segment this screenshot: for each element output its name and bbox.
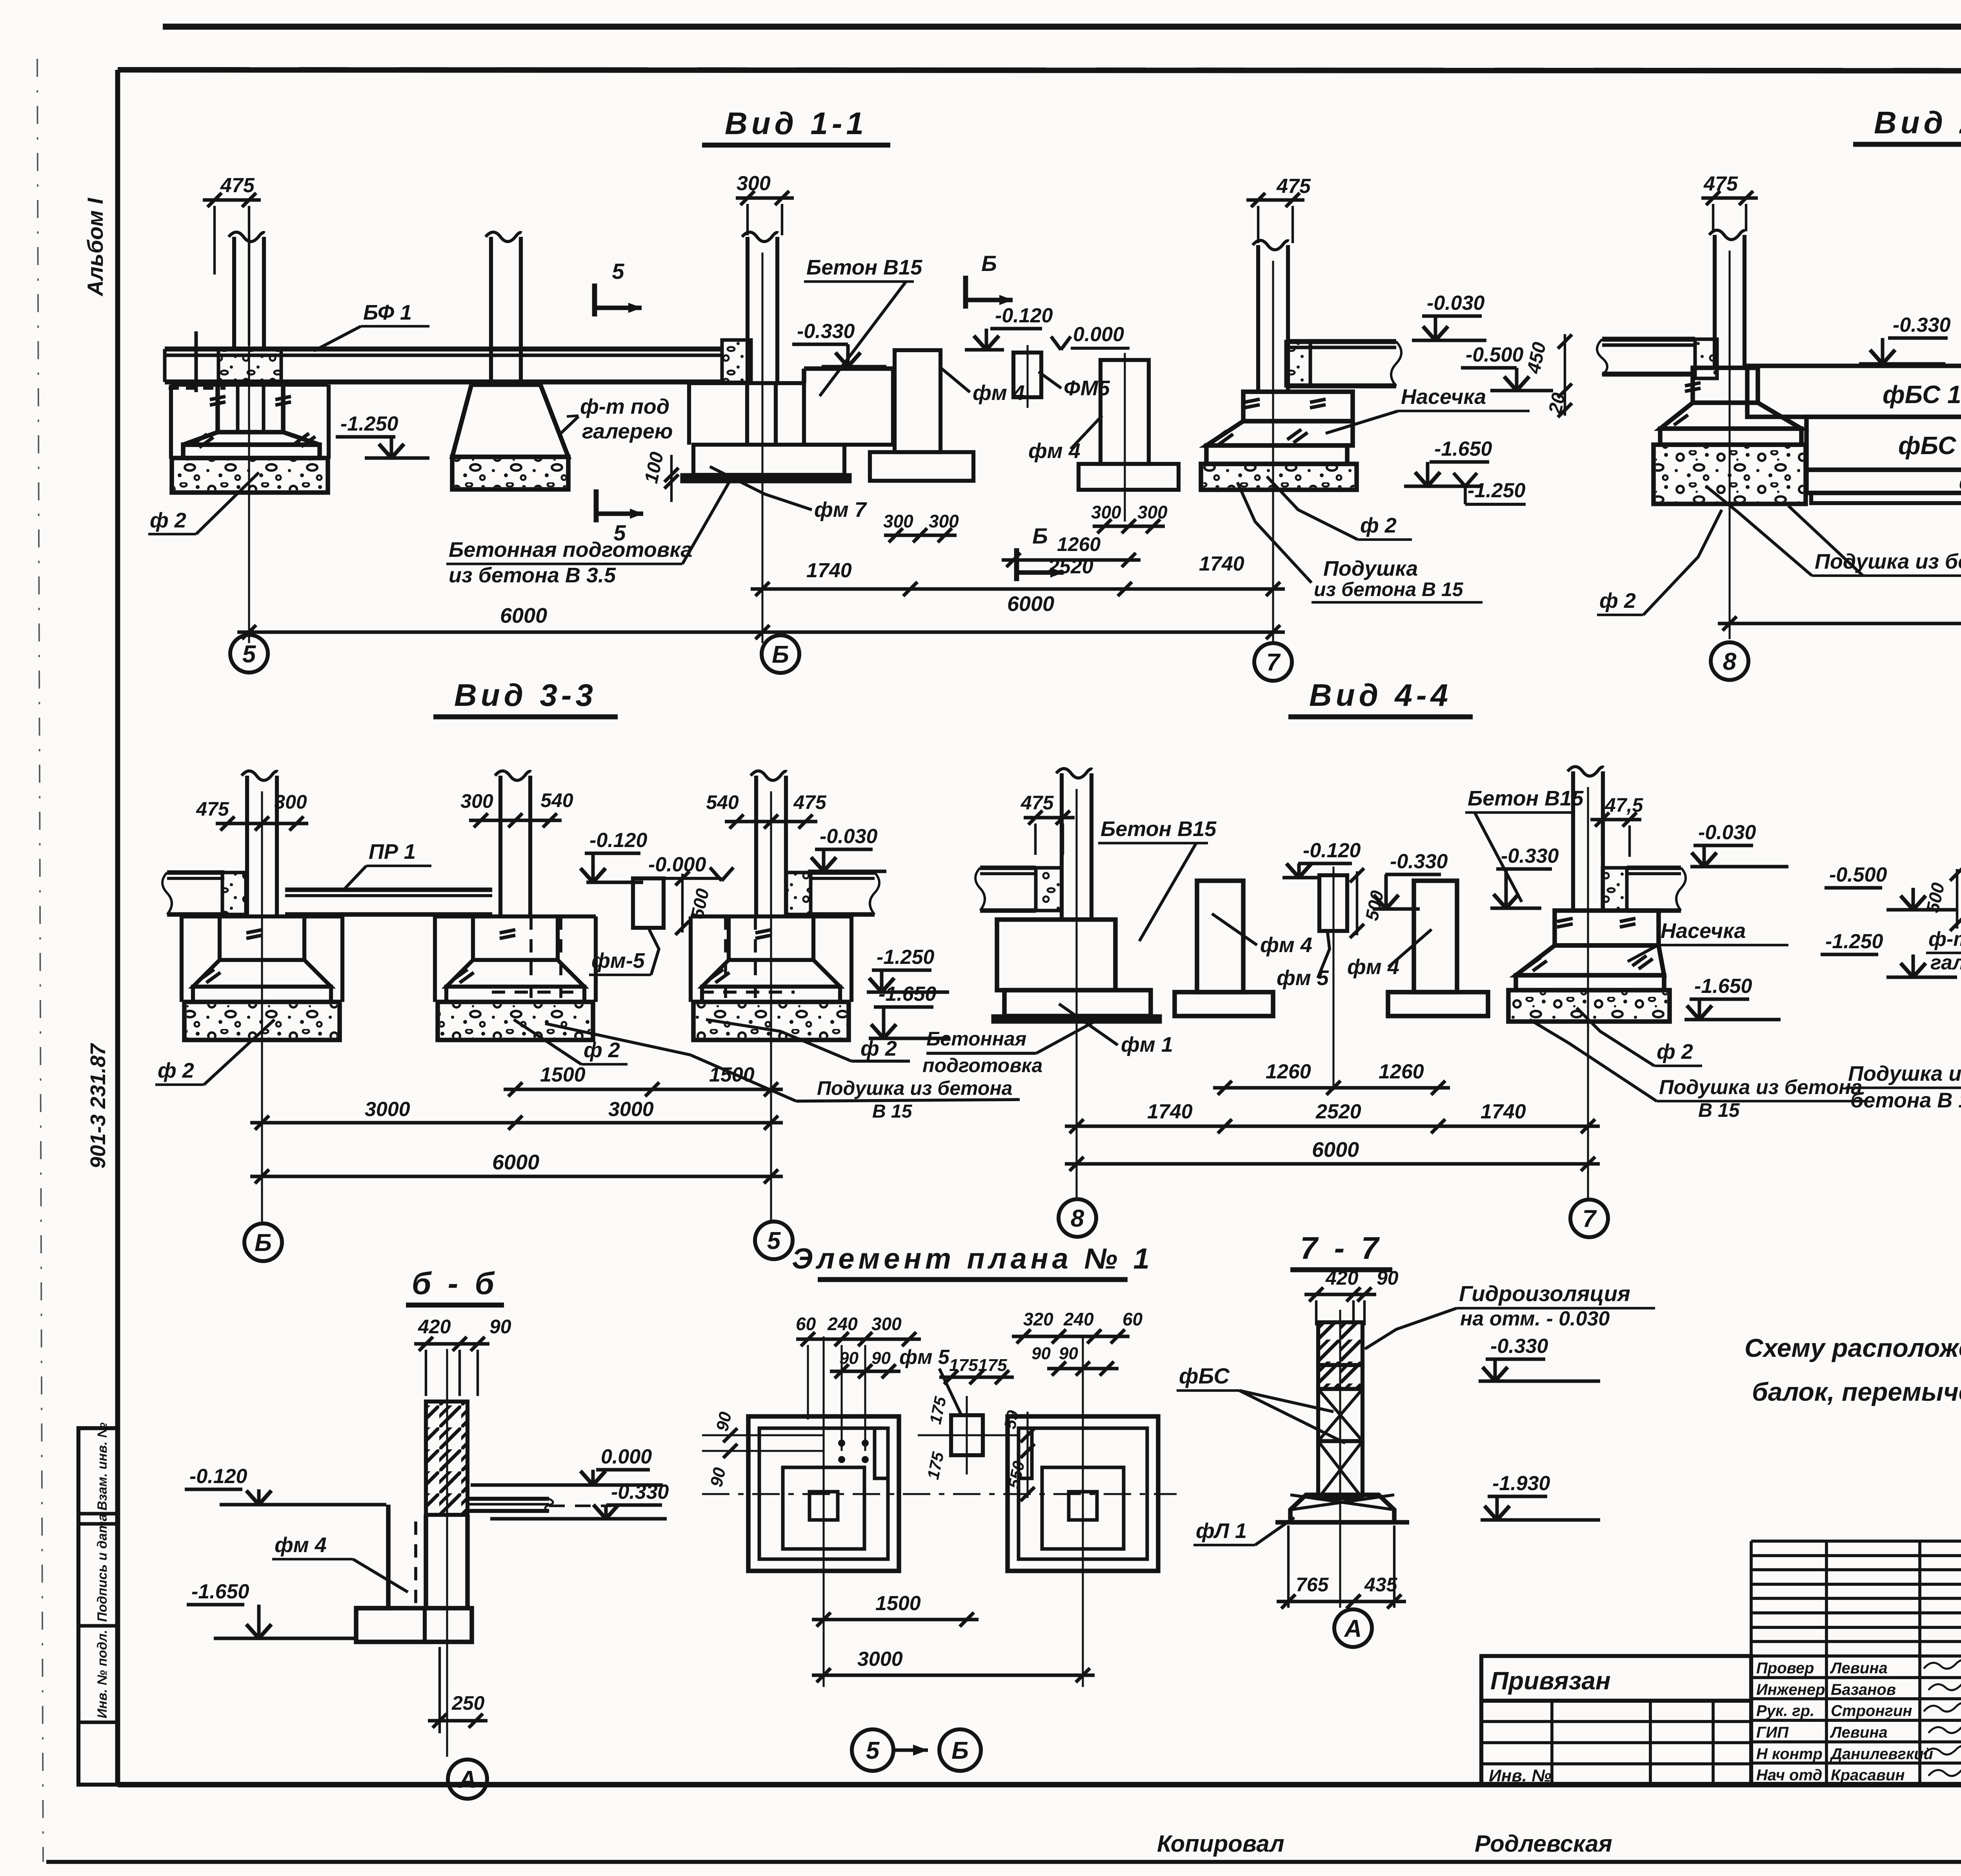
svg-text:Инженер: Инженер (1756, 1681, 1825, 1698)
svg-text:-0.500: -0.500 (1829, 863, 1887, 886)
svg-text:ФМ5: ФМ5 (1064, 376, 1110, 400)
svg-text:бетона В 15: бетона В 15 (1850, 1089, 1961, 1112)
svg-text:Б: Б (981, 251, 997, 276)
svg-text:балок, перемычек см. лист: балок, перемычек см. лист КЖ-19. (1752, 1377, 1961, 1406)
svg-text:1500: 1500 (540, 1063, 586, 1086)
svg-text:-0.330: -0.330 (797, 320, 855, 343)
svg-text:Бетон В15: Бетон В15 (1101, 817, 1217, 841)
svg-text:-1.250: -1.250 (877, 946, 935, 969)
svg-text:765: 765 (1296, 1574, 1329, 1596)
svg-text:Родлевская: Родлевская (1475, 1831, 1612, 1857)
svg-text:галерею: галерею (582, 420, 673, 443)
svg-text:б - б: б - б (412, 1266, 498, 1301)
svg-text:3000: 3000 (608, 1098, 654, 1121)
svg-text:Вид 4-4: Вид 4-4 (1309, 678, 1452, 713)
svg-text:Насечка: Насечка (1661, 919, 1746, 943)
svg-text:901-3 231.87: 901-3 231.87 (86, 1043, 110, 1169)
svg-text:475: 475 (1021, 792, 1054, 814)
svg-text:-1.250: -1.250 (1468, 479, 1526, 502)
svg-text:420: 420 (418, 1316, 451, 1338)
svg-text:Н контр: Н контр (1756, 1745, 1823, 1763)
svg-text:ф 2: ф 2 (158, 1059, 194, 1082)
svg-text:фм 4: фм 4 (1260, 933, 1312, 957)
svg-text:Базанов: Базанов (1831, 1681, 1896, 1698)
svg-text:А: А (458, 1766, 477, 1793)
svg-text:-0.330: -0.330 (1390, 850, 1448, 873)
svg-text:7 - 7: 7 - 7 (1300, 1231, 1383, 1265)
svg-text:240: 240 (827, 1314, 858, 1334)
svg-text:6000: 6000 (1312, 1138, 1359, 1162)
svg-text:Вид 1-1: Вид 1-1 (725, 106, 868, 141)
svg-text:фм-5: фм-5 (591, 949, 645, 973)
svg-text:7: 7 (1583, 1205, 1597, 1232)
svg-text:-1.250: -1.250 (340, 413, 398, 435)
svg-text:фм 4: фм 4 (973, 381, 1025, 405)
svg-text:540: 540 (540, 789, 573, 811)
svg-text:Провер: Провер (1756, 1660, 1814, 1677)
svg-text:475: 475 (220, 174, 255, 197)
svg-text:175: 175 (949, 1356, 978, 1375)
svg-text:-0.120: -0.120 (995, 304, 1053, 327)
svg-text:90: 90 (1377, 1267, 1399, 1289)
svg-text:300: 300 (1091, 502, 1121, 522)
svg-text:Подушка из: Подушка из (1848, 1062, 1961, 1085)
svg-text:250: 250 (451, 1692, 485, 1714)
svg-text:-0.030: -0.030 (1698, 821, 1756, 844)
svg-text:420: 420 (1325, 1267, 1359, 1289)
svg-text:-0.030: -0.030 (820, 825, 878, 848)
svg-text:475: 475 (1276, 175, 1311, 198)
svg-text:60: 60 (1122, 1309, 1143, 1329)
svg-text:1740: 1740 (1199, 553, 1244, 575)
svg-text:Б: Б (772, 641, 789, 668)
svg-text:Привязан: Привязан (1490, 1667, 1611, 1695)
svg-text:1740: 1740 (1147, 1100, 1193, 1123)
svg-text:фм 4: фм 4 (275, 1533, 327, 1557)
svg-text:0.000: 0.000 (1073, 323, 1124, 346)
svg-text:-0.330: -0.330 (1893, 314, 1951, 336)
svg-text:6000: 6000 (492, 1151, 539, 1174)
svg-text:90: 90 (839, 1349, 859, 1368)
svg-text:90: 90 (489, 1316, 511, 1338)
svg-text:-1.650: -1.650 (879, 983, 937, 1005)
svg-text:-0.330: -0.330 (611, 1481, 669, 1503)
svg-text:на отм. - 0.030: на отм. - 0.030 (1460, 1307, 1610, 1330)
svg-text:ПР 1: ПР 1 (369, 840, 416, 863)
svg-text:ф 2: ф 2 (1360, 514, 1397, 537)
svg-text:Подушка: Подушка (1323, 557, 1418, 580)
svg-text:0.000: 0.000 (601, 1445, 652, 1468)
svg-text:5: 5 (612, 259, 624, 284)
svg-text:из бетона В 15: из бетона В 15 (1314, 578, 1464, 600)
svg-text:-1.650: -1.650 (191, 1580, 249, 1603)
svg-text:240: 240 (1063, 1309, 1094, 1329)
svg-text:ф 2: ф 2 (584, 1038, 620, 1062)
svg-text:6000: 6000 (500, 604, 547, 627)
svg-text:фм 4: фм 4 (1347, 955, 1399, 979)
svg-text:300: 300 (871, 1314, 902, 1334)
svg-text:Элемент плана № 1: Элемент плана № 1 (792, 1242, 1153, 1275)
svg-text:ф-т. под: ф-т. под (1928, 928, 1961, 951)
svg-text:Вид 3-3: Вид 3-3 (454, 678, 597, 713)
svg-text:Инв. №: Инв. № (1489, 1766, 1552, 1785)
svg-text:-1.930: -1.930 (1492, 1472, 1550, 1495)
svg-text:-0.120: -0.120 (189, 1465, 247, 1488)
svg-text:ф 2: ф 2 (1599, 589, 1636, 613)
svg-text:ф 2: ф 2 (150, 509, 186, 532)
svg-text:Вид 2-2: Вид 2-2 (1874, 105, 1961, 140)
svg-text:Левина: Левина (1830, 1660, 1888, 1677)
svg-text:-1.650: -1.650 (1434, 438, 1492, 460)
svg-text:300: 300 (929, 511, 959, 531)
svg-text:Инв. № подл.: Инв. № подл. (95, 1630, 110, 1718)
svg-text:-1.250: -1.250 (1825, 930, 1883, 953)
svg-text:БФ 1: БФ 1 (363, 301, 412, 324)
svg-text:Б: Б (1032, 524, 1048, 548)
svg-text:1260: 1260 (1057, 533, 1101, 555)
svg-text:3000: 3000 (857, 1648, 903, 1671)
svg-text:1260: 1260 (1379, 1060, 1424, 1083)
svg-text:Б: Б (255, 1229, 272, 1256)
svg-text:фБС 1,: фБС 1, (1883, 380, 1961, 409)
svg-text:-0.500: -0.500 (1466, 344, 1524, 366)
svg-text:ф-т под: ф-т под (580, 395, 669, 418)
svg-text:Подушка из бетона: Подушка из бетона (1659, 1076, 1862, 1099)
svg-text:фм 5: фм 5 (899, 1346, 950, 1369)
svg-text:Насечка: Насечка (1401, 385, 1486, 409)
svg-text:475: 475 (793, 791, 827, 813)
svg-text:фБС 1 ,: фБС 1 , (1898, 431, 1961, 460)
svg-text:Бетон В15: Бетон В15 (1468, 787, 1584, 810)
svg-text:фм 4: фм 4 (1028, 439, 1081, 463)
svg-text:300: 300 (274, 791, 307, 813)
svg-text:5: 5 (242, 641, 256, 668)
svg-text:Подушка из бетона: Подушка из бетона (817, 1077, 1012, 1099)
svg-text:320: 320 (1023, 1309, 1053, 1329)
svg-text:ГИП: ГИП (1756, 1724, 1789, 1741)
svg-text:фЛ 1: фЛ 1 (1959, 471, 1961, 494)
svg-text:Подушка из бетона В 15: Подушка из бетона В 15 (1815, 550, 1961, 573)
svg-text:435: 435 (1364, 1574, 1398, 1596)
svg-text:-0.330: -0.330 (1501, 845, 1559, 867)
svg-text:Копировал: Копировал (1157, 1831, 1284, 1857)
svg-text:-0.120: -0.120 (1303, 839, 1361, 862)
svg-text:-0.030: -0.030 (1427, 292, 1485, 314)
svg-text:Подпись и дата: Подпись и дата (95, 1514, 110, 1622)
svg-text:Стронгин: Стронгин (1831, 1702, 1912, 1720)
svg-text:1500: 1500 (875, 1592, 921, 1615)
svg-text:из бетона В 3.5: из бетона В 3.5 (449, 564, 616, 587)
svg-text:В 15: В 15 (872, 1101, 913, 1122)
svg-text:Красавин: Красавин (1831, 1767, 1905, 1784)
svg-text:1500: 1500 (709, 1063, 755, 1086)
svg-text:8: 8 (1071, 1205, 1084, 1232)
svg-text:Бетонная подготовка: Бетонная подготовка (449, 538, 692, 562)
svg-text:90: 90 (1059, 1344, 1078, 1363)
svg-text:7: 7 (1266, 649, 1281, 676)
svg-text:ф 2: ф 2 (1657, 1040, 1693, 1063)
svg-text:Взам. инв. №: Взам. инв. № (95, 1422, 110, 1511)
svg-text:-0.120: -0.120 (589, 829, 648, 852)
svg-text:475: 475 (1703, 173, 1738, 195)
svg-text:В 15: В 15 (1698, 1099, 1740, 1121)
svg-text:540: 540 (706, 791, 739, 813)
svg-text:300: 300 (737, 172, 771, 195)
svg-text:300: 300 (883, 511, 913, 531)
svg-text:Левина: Левина (1830, 1724, 1888, 1741)
svg-text:Данилевгкий: Данилевгкий (1830, 1745, 1933, 1763)
svg-text:ф 2: ф 2 (860, 1037, 897, 1060)
svg-text:фБС: фБС (1179, 1363, 1230, 1388)
svg-text:-0.330: -0.330 (1490, 1335, 1548, 1358)
svg-text:60: 60 (796, 1314, 816, 1334)
svg-text:3000: 3000 (365, 1098, 410, 1121)
svg-text:8: 8 (1723, 648, 1737, 675)
svg-text:90: 90 (1031, 1344, 1051, 1363)
svg-text:300: 300 (460, 790, 493, 812)
svg-text:90: 90 (871, 1349, 891, 1368)
svg-text:Гидроизоляция: Гидроизоляция (1459, 1281, 1630, 1306)
svg-text:1740: 1740 (806, 559, 852, 582)
svg-text:А: А (1344, 1615, 1362, 1642)
svg-text:Нач отд: Нач отд (1756, 1767, 1822, 1784)
svg-text:6000: 6000 (1007, 592, 1054, 616)
svg-text:300: 300 (1137, 502, 1168, 522)
svg-text:5: 5 (866, 1737, 880, 1764)
svg-text:Б: Б (951, 1737, 969, 1764)
svg-text:20: 20 (1545, 391, 1570, 416)
svg-text:-1.650: -1.650 (1694, 975, 1752, 998)
svg-text:Бетонная: Бетонная (926, 1028, 1026, 1050)
svg-text:фм 7: фм 7 (814, 498, 868, 522)
svg-text:1740: 1740 (1481, 1100, 1526, 1123)
svg-text:5: 5 (767, 1227, 781, 1254)
svg-text:фЛ 1: фЛ 1 (1196, 1519, 1247, 1543)
svg-text:Альбом I: Альбом I (83, 198, 107, 297)
svg-text:галерею: галерею (1930, 951, 1961, 974)
svg-text:1260: 1260 (1266, 1060, 1311, 1083)
svg-text:475: 475 (196, 798, 229, 820)
svg-text:Бетон В15: Бетон В15 (806, 256, 922, 279)
svg-text:Рук. гр.: Рук. гр. (1756, 1702, 1814, 1720)
svg-text:Схему расположения фундаме: Схему расположения фундаментов, фундамен… (1745, 1333, 1961, 1362)
svg-text:фм 1: фм 1 (1121, 1033, 1173, 1056)
svg-text:2520: 2520 (1315, 1100, 1361, 1123)
svg-text:47,5: 47,5 (1604, 794, 1644, 816)
svg-text:-0.000: -0.000 (648, 853, 706, 876)
svg-text:подготовка: подготовка (922, 1054, 1042, 1076)
